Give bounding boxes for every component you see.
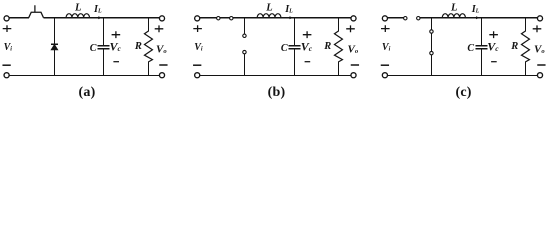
svg-text:C: C	[467, 43, 474, 54]
shorted diode terminal lower (c)	[430, 51, 433, 54]
plus sign of Vc (c)	[489, 31, 498, 38]
input terminal top-left (a)	[4, 16, 9, 21]
wire: top rail right segment (a)	[43, 17, 159, 19]
minus sign of Vo (a)	[159, 64, 167, 66]
svg-text:L: L	[74, 3, 81, 14]
wire: top rail right segment (c)	[418, 17, 537, 19]
input terminal top-left (c)	[382, 16, 387, 21]
capacitor C plates (a)	[97, 45, 109, 47]
svg-text:C: C	[90, 43, 97, 54]
plus sign of Vi (a)	[3, 25, 12, 32]
input terminal bottom-left (a)	[4, 73, 9, 78]
wire: capacitor branch lower (c)	[480, 49, 482, 75]
inductor L (c)	[442, 14, 465, 18]
shorted diode terminal upper (c)	[430, 30, 433, 33]
wire: diode branch lower stub (b)	[243, 52, 245, 75]
minus sign of Vc (a)	[113, 61, 119, 63]
svg-text:(b): (b)	[268, 85, 286, 100]
input terminal bottom-left (c)	[382, 73, 387, 78]
wire: capacitor branch upper (a)	[102, 18, 104, 46]
wire: bottom rail (c)	[387, 74, 537, 76]
wire: top rail (b)	[200, 17, 351, 19]
svg-text:(c): (c)	[456, 85, 472, 100]
svg-text:C: C	[281, 43, 288, 54]
resistor R (a)	[144, 31, 152, 62]
capacitor C plates (b)	[288, 45, 300, 47]
output terminal top-right (a)	[159, 16, 164, 21]
wire: capacitor branch lower (b)	[293, 49, 295, 75]
plus sign of Vc (a)	[112, 31, 121, 38]
switch contact terminal right (b)	[230, 17, 233, 20]
minus sign of Vo (c)	[537, 64, 545, 66]
diode D (freewheeling) (a)	[51, 44, 58, 50]
svg-text:L: L	[450, 3, 457, 14]
plus sign of Vi (c)	[381, 25, 390, 32]
svg-text:R: R	[323, 41, 331, 52]
wire: capacitor branch upper (c)	[480, 18, 482, 46]
open diode terminal upper (b)	[243, 34, 246, 37]
switch S (ideal switch symbol) (a)	[29, 5, 44, 18]
plus sign of Vc (b)	[303, 31, 312, 38]
minus sign of Vi (c)	[381, 64, 389, 66]
current arrow IL (a)	[98, 16, 102, 19]
minus sign of Vi (a)	[2, 64, 10, 66]
svg-text:L: L	[265, 3, 272, 14]
wire: bottom rail (a)	[9, 74, 159, 76]
input terminal top-left (b)	[195, 16, 200, 21]
minus sign of Vc (c)	[491, 61, 497, 63]
open diode terminal lower (b)	[243, 50, 246, 53]
output terminal bottom-right (c)	[537, 73, 542, 78]
plus sign of Vi (b)	[193, 25, 202, 32]
wire: diode branch (shorted diode) (c)	[430, 18, 432, 76]
plus sign of Vo (a)	[155, 25, 164, 32]
wire: capacitor branch lower (a)	[102, 49, 104, 75]
output terminal top-right (b)	[351, 16, 356, 21]
current arrow IL (b)	[290, 16, 294, 19]
output terminal bottom-right (b)	[351, 73, 356, 78]
svg-text:(a): (a)	[79, 85, 96, 100]
wire: resistor branch upper stub (a)	[147, 18, 149, 32]
wire: diode branch upper stub (b)	[243, 18, 245, 36]
current arrow IL (c)	[476, 16, 480, 19]
wire: capacitor branch upper (b)	[293, 18, 295, 46]
wire: resistor branch lower stub (c)	[524, 62, 526, 76]
wire: resistor branch lower stub (b)	[337, 62, 339, 76]
switch contact terminal left (c)	[404, 17, 407, 20]
wire: bottom rail (b)	[200, 74, 351, 76]
wire: diode branch (a)	[53, 18, 55, 76]
inductor L (b)	[257, 14, 281, 18]
resistor R (b)	[334, 31, 342, 62]
diode D cathode bar (a)	[51, 43, 58, 45]
switch contact terminal left (b)	[217, 17, 220, 20]
minus sign of Vi (b)	[193, 64, 201, 66]
svg-text:R: R	[510, 41, 518, 52]
svg-text:R: R	[134, 41, 142, 52]
output terminal bottom-right (a)	[159, 73, 164, 78]
capacitor C plates (c)	[475, 45, 487, 47]
inductor L (a)	[66, 14, 89, 18]
resistor R (c)	[521, 31, 529, 62]
input terminal bottom-left (b)	[195, 73, 200, 78]
plus sign of Vo (c)	[533, 25, 542, 32]
minus sign of Vo (b)	[351, 64, 359, 66]
minus sign of Vc (b)	[305, 61, 311, 63]
switch contact terminal right (c)	[417, 17, 420, 20]
wire: top rail left segment (c)	[387, 17, 405, 19]
wire: resistor branch upper stub (b)	[337, 18, 339, 32]
wire: top rail left segment (a)	[9, 17, 29, 19]
wire: resistor branch lower stub (a)	[147, 62, 149, 76]
output terminal top-right (c)	[537, 16, 542, 21]
plus sign of Vo (b)	[346, 25, 355, 32]
wire: resistor branch upper stub (c)	[524, 18, 526, 32]
